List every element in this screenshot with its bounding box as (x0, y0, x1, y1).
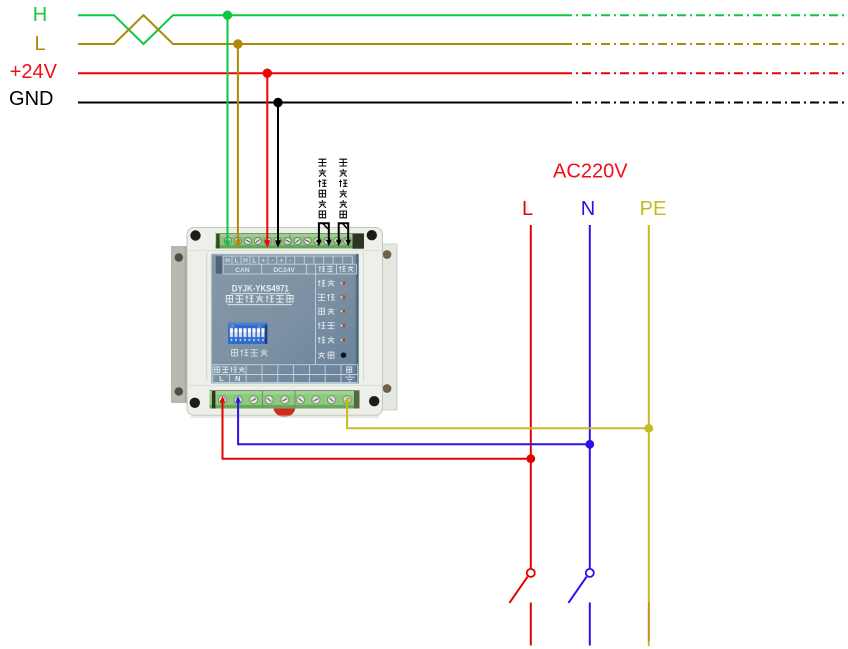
svg-text:L: L (252, 258, 256, 265)
passive output contact jumper (319, 223, 329, 240)
enclosure body (187, 228, 383, 416)
svg-text:L: L (219, 374, 224, 383)
top terminal screws (224, 237, 351, 244)
wire GND drop to DC24V - terminal (277, 103, 279, 242)
bus L wire (with twisted-pair crossover) (78, 15, 563, 44)
front panel (211, 254, 358, 384)
svg-text:H: H (243, 258, 248, 265)
svg-text:+: + (279, 258, 283, 265)
svg-text:dB: dB (258, 324, 262, 328)
ear screw hole bottom-right (369, 396, 379, 406)
wire L vertical (530, 225, 532, 569)
svg-text:PE: PE (640, 198, 667, 220)
right flange (380, 244, 397, 410)
switch S2 (N) (586, 569, 594, 577)
svg-text:H: H (33, 4, 47, 26)
passive input contact jumper (339, 223, 349, 240)
wire +24V drop to DC24V + terminal (266, 73, 268, 241)
junction node H (223, 11, 232, 20)
ear screw hole bottom-left (190, 398, 200, 408)
svg-text:L: L (34, 33, 45, 55)
bus GND wire (78, 102, 563, 104)
bus L dash-dot extension (563, 43, 847, 45)
wire module earth terminal to PE (347, 402, 649, 428)
left DIN flange (171, 246, 188, 403)
ear screw hole top-left (190, 230, 200, 240)
bus +24V wire (78, 72, 563, 74)
wire PE vertical (648, 225, 650, 602)
svg-text:L: L (522, 198, 533, 220)
switch S1 (L) (527, 569, 535, 577)
svg-text:-: - (271, 258, 273, 265)
junction node L (233, 39, 242, 48)
junction node on PE (644, 424, 653, 433)
svg-text:ON: ON (229, 324, 235, 328)
bottom terminal recess (210, 391, 360, 409)
svg-text:+24V: +24V (10, 61, 58, 83)
wire module N input to AC N (238, 402, 590, 444)
bus H dash-dot extension (563, 14, 847, 16)
junction node +24V (263, 69, 272, 78)
body groove lines (206, 253, 208, 381)
svg-text:+: + (262, 258, 266, 265)
svg-text:CAN: CAN (235, 267, 250, 274)
junction node on L (526, 454, 535, 463)
buzzer red dome (274, 399, 295, 417)
svg-text:DYJK-YKS4971: DYJK-YKS4971 (232, 284, 289, 294)
junction node GND (273, 98, 282, 107)
bus H wire (with twisted-pair crossover) (78, 15, 563, 44)
module drop shadow (191, 415, 379, 418)
svg-text:H: H (225, 258, 230, 265)
svg-text:N: N (581, 198, 595, 220)
wire module L input to AC L (223, 402, 532, 459)
top terminal recess (216, 234, 364, 249)
svg-text:L: L (235, 258, 239, 265)
svg-text:AC220V: AC220V (553, 160, 628, 182)
ear screw hole top-right (367, 230, 377, 240)
svg-text:GND: GND (9, 88, 53, 110)
label 无源输入触点 (vertical) (339, 159, 347, 218)
bus +24V dash-dot extension (563, 72, 847, 74)
svg-text:DC24V: DC24V (273, 267, 295, 274)
bottom terminal screws (218, 396, 351, 404)
svg-text:-: - (289, 258, 291, 265)
wire N vertical (589, 225, 591, 569)
bus GND dash-dot extension (563, 102, 847, 104)
module DYJK-YKS4971 voltage signal sensor (photo recreated) (171, 228, 397, 417)
label 无源输出触点 (vertical) (318, 159, 326, 218)
svg-text:N: N (235, 374, 240, 383)
wire H drop to CAN H terminal (227, 15, 229, 241)
junction node on N (585, 440, 594, 449)
wire L drop to CAN L terminal (237, 44, 239, 241)
